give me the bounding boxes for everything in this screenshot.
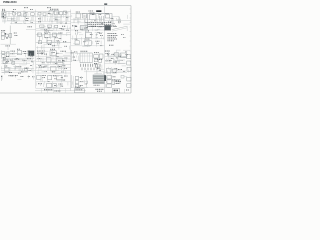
wires c4 rails <box>71 75 73 88</box>
fill mid s3 <box>73 32 104 40</box>
fine drops s1 <box>3 13 32 23</box>
wire drops s2 <box>40 14 66 24</box>
fill band7 s2 <box>36 65 67 74</box>
wire row s3 band2 <box>71 29 105 31</box>
right rail box 1 <box>127 55 131 59</box>
right rail box 3 <box>127 67 131 71</box>
capacitor C6 <box>23 14 26 17</box>
wire bus2 s2 <box>36 16 71 18</box>
fill band7 s4 <box>107 66 128 75</box>
bottom label mid <box>75 89 85 93</box>
frame top border <box>0 5 131 7</box>
resistor R4 <box>38 12 41 15</box>
capacitor C4 <box>75 30 78 40</box>
fill band7 s3 <box>94 63 104 74</box>
wire row k1 <box>36 27 71 29</box>
wire slant net <box>112 26 127 31</box>
labels b3 mid <box>38 57 42 60</box>
wire row a3 low <box>1 67 34 69</box>
transistor Q1 <box>76 12 81 18</box>
ic U18 <box>47 75 55 79</box>
fill band5 s2 <box>38 50 70 58</box>
resistor R11 <box>114 75 124 83</box>
value labels s1 row <box>2 9 33 10</box>
fill band6 s2 <box>41 58 67 65</box>
fill low s3 <box>73 40 102 47</box>
wire bus s3 <box>71 12 105 14</box>
wire bus s2 y42 <box>36 41 71 43</box>
fill low s2 <box>37 40 69 49</box>
labels a3 <box>15 58 31 60</box>
wire row d3 y72 <box>105 72 128 74</box>
wire row b3 y64 <box>36 62 71 64</box>
ic U6 <box>35 31 92 91</box>
label s4 low <box>109 44 113 47</box>
wire row s3 y19 <box>71 19 105 21</box>
labels b3 <box>37 51 45 54</box>
bottom label left <box>44 89 60 91</box>
ic U5 <box>44 31 50 38</box>
labels d3 <box>105 51 110 54</box>
junction dots s2 <box>52 21 62 24</box>
ic U15 <box>3 58 7 68</box>
resistor R7 <box>52 33 56 36</box>
wire row left y44 <box>1 43 17 45</box>
transistor Q2 <box>82 13 86 18</box>
ic U9 <box>50 49 56 56</box>
wire mid bus s2 <box>36 34 71 36</box>
note table <box>108 33 118 41</box>
wire bus1 s2 <box>36 11 71 13</box>
ic U19 <box>56 75 67 80</box>
wire row d3 y63 <box>105 55 127 63</box>
ic big block outline <box>88 14 113 27</box>
ic U4 dark block <box>104 25 115 30</box>
wire row b3 y70 <box>36 62 71 70</box>
bottom label right <box>96 89 104 92</box>
fill band5 s4 <box>107 50 130 57</box>
wire row s3 y45 <box>71 45 105 47</box>
label s1 b <box>26 17 28 20</box>
section rail x36 <box>35 10 37 89</box>
resistor R1 <box>13 12 16 15</box>
net label B <box>47 6 51 9</box>
dark bar d4 <box>104 75 106 81</box>
resistor R6 <box>38 33 42 36</box>
fill s4 top <box>105 15 130 24</box>
capacitor C3 <box>118 17 120 25</box>
resistor network RN1 <box>17 49 22 55</box>
ic U8 dark <box>28 51 34 56</box>
junction dots s1 <box>14 21 26 24</box>
resistor R3 <box>31 13 35 16</box>
fill band2 mid <box>40 25 70 31</box>
wire row s2 y21 <box>36 20 71 22</box>
connector CN1 <box>2 10 6 17</box>
connector CN3 <box>107 76 116 88</box>
labels d3 mid <box>106 60 117 62</box>
wire row a3 y61 <box>1 59 36 64</box>
fill s2 top <box>38 12 68 25</box>
label under shield <box>94 84 100 87</box>
fill band5 s1 <box>2 50 33 57</box>
shield block <box>93 75 104 84</box>
switch S1 <box>1 75 2 81</box>
wire row b3 y67 <box>36 64 71 70</box>
ic U2 <box>90 13 96 20</box>
labels d2 right <box>121 34 125 38</box>
diode D2 <box>59 33 63 41</box>
label mid-left <box>26 26 36 29</box>
ic U10 <box>80 51 92 63</box>
note top right <box>104 3 107 5</box>
wire bus2 s1 <box>1 16 36 18</box>
wire row s2 y47 <box>36 44 62 50</box>
fill band6 s4 <box>110 58 126 65</box>
wire row a3 <box>1 58 34 60</box>
wire row a3 y72 <box>1 71 28 73</box>
fill band8 s3 <box>72 76 88 88</box>
wire bus1 s1 <box>1 11 36 13</box>
diode D1 <box>43 13 46 16</box>
frame right border <box>130 6 132 93</box>
fill band5 d3b <box>106 58 122 62</box>
fill band8 s4 <box>106 75 128 87</box>
wire row a3 y63 <box>1 62 30 64</box>
ic U1 value labels <box>50 8 58 11</box>
wire row b3 y59 <box>36 55 71 62</box>
wire row c4 top <box>84 70 105 88</box>
label s3 low <box>96 40 100 43</box>
wire row a3 y70 <box>1 64 36 72</box>
ic U11 <box>94 52 103 62</box>
fill mid s2 <box>39 32 70 39</box>
resistor R5 <box>105 13 109 18</box>
fill band6 s1 <box>4 58 35 65</box>
labels b3b <box>61 50 66 53</box>
varistor RV1 <box>5 33 17 39</box>
wire drops s1 <box>5 12 33 23</box>
ic label dark top-center <box>89 10 102 12</box>
right rail box 2 <box>127 61 131 65</box>
resistor R2 <box>18 12 21 15</box>
fill s1 top <box>2 11 33 25</box>
labels b4 mid <box>38 82 42 85</box>
fill band7 s1 <box>2 65 33 75</box>
plus marks <box>96 33 98 37</box>
ic U13 <box>51 65 66 71</box>
wires c3 top <box>71 50 74 62</box>
resistor R12 <box>12 61 34 64</box>
wire row b4 y81 <box>36 81 71 83</box>
label s1 a <box>11 18 13 21</box>
dense dash band s3 <box>86 22 111 27</box>
wire row b3 y61 <box>36 61 71 63</box>
box row d3 low <box>106 68 122 73</box>
ic U3 <box>72 25 102 29</box>
wire bottom bus <box>71 87 110 89</box>
ic U14 <box>120 53 126 57</box>
labels a3 low <box>17 64 29 72</box>
labels c3 low <box>95 64 100 74</box>
right rail tick stubs <box>130 9 131 86</box>
title text PWB <box>3 0 17 4</box>
label s2 band2 <box>62 25 65 28</box>
label s2 low <box>63 40 66 43</box>
transformer T1 <box>1 30 8 39</box>
ic U1 <box>49 10 67 14</box>
fill band8 s2 <box>36 75 68 87</box>
connector CN2 <box>2 51 9 57</box>
capacitor C2 <box>100 16 104 22</box>
transistor row ticks <box>82 68 100 71</box>
labels b3 low <box>39 66 44 69</box>
wire row s2 y30 <box>36 29 71 30</box>
wire row s1 y21 <box>2 20 36 22</box>
label left mid <box>15 34 18 37</box>
frame bottom border <box>0 92 131 94</box>
fine drops s2 <box>38 12 69 21</box>
resistor R9 <box>47 40 51 43</box>
wire row band5 mid <box>36 55 71 57</box>
wire drops s3 <box>74 18 97 23</box>
capacitor C5 <box>58 41 60 50</box>
section rail x71 <box>70 10 72 92</box>
capacitor C7 <box>25 69 28 72</box>
svg-text:N-1: N-1 <box>14 2 17 4</box>
ic U12 <box>46 58 67 63</box>
label s2 a <box>38 17 40 20</box>
label s2 b <box>55 18 57 21</box>
fill a4 top <box>2 75 34 80</box>
labels cn2 <box>11 51 15 55</box>
wire row s2 y23 <box>36 23 71 25</box>
ic U17 <box>37 75 46 79</box>
wire row b4 y88 <box>36 88 71 93</box>
transistor Q3 <box>75 39 80 45</box>
wire row s3 y22 <box>71 22 105 24</box>
label s4 <box>108 21 111 24</box>
relay K1 <box>40 25 58 28</box>
ic U20 <box>47 83 63 87</box>
bottom box J1 <box>113 88 120 92</box>
wire drops s2 mid <box>40 36 55 42</box>
right rail box 4 <box>127 77 131 87</box>
bottom tick right <box>125 89 129 93</box>
fuse F1 <box>6 46 10 51</box>
connector CN4 <box>75 76 82 87</box>
net label A <box>24 6 28 9</box>
wire row s3 mid <box>71 38 105 40</box>
ic U7 <box>85 39 92 46</box>
left rail x10 <box>9 26 11 45</box>
resistor R10 <box>115 53 119 56</box>
labels c3 r <box>96 59 102 63</box>
wire row s4 <box>105 19 132 21</box>
wire row b3 y73 <box>36 71 71 73</box>
ic U10 pin ticks <box>81 64 100 67</box>
section rail x104 <box>104 7 106 93</box>
resistor R8 <box>38 41 42 44</box>
ic U16 <box>4 66 9 72</box>
fill c3 left <box>72 51 80 60</box>
wire row s1 y23 <box>10 22 36 24</box>
wire row band5 left <box>1 52 29 54</box>
wire row d3 <box>105 56 127 58</box>
fill band2 right <box>74 25 100 31</box>
fill s3 top <box>72 14 103 25</box>
labels a4 <box>9 75 35 77</box>
